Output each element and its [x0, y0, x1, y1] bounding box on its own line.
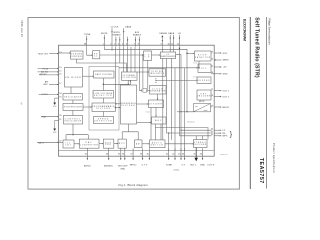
svg-text:20: 20 [59, 115, 61, 117]
wire pin23 drop [130, 47, 132, 72]
wire SENSE pin [162, 37, 163, 46]
wire refdiv bottom [128, 124, 130, 132]
wire buffer pin [211, 73, 215, 75]
svg-text:35: 35 [118, 154, 120, 156]
wire bottom stub x181.0 [180, 148, 182, 160]
svg-text:38: 38 [84, 44, 86, 46]
svg-text:GND: GND [223, 74, 228, 76]
wire sense drops a [161, 47, 163, 52]
svg-text:MUTE: MUTE [199, 101, 205, 103]
wire DATA2 pin [170, 35, 171, 47]
wire pin23 long drop [139, 47, 141, 90]
wire sense drops c [173, 47, 175, 52]
wire TUNE pin [86, 36, 87, 47]
wire pin19 drop short [111, 47, 113, 51]
svg-text:DETECTOR: DETECTOR [94, 95, 113, 97]
junction mute/stop [186, 53, 187, 54]
svg-text:t0 u1: t0 u1 [193, 62, 197, 65]
svg-text:36: 36 [122, 154, 124, 156]
junction stopdet tie [198, 67, 199, 68]
svg-text:GENERATOR: GENERATOR [150, 89, 166, 92]
svg-text:33: 33 [85, 154, 87, 156]
svg-text:GND: GND [120, 168, 125, 170]
svg-text:DATA: DATA [168, 32, 174, 35]
svg-text:INDICATOR: INDICATOR [150, 72, 165, 75]
svg-text:GND: GND [200, 165, 205, 167]
svg-text:6: 6 [21, 101, 23, 105]
svg-text:OSCILLATOR: OSCILLATOR [64, 95, 82, 98]
svg-text:—: — [27, 9, 29, 11]
block programmable divider [92, 103, 115, 112]
wire right pin MUTE [214, 106, 222, 107]
wire tri pin [211, 106, 212, 108]
wire ifcnt to tuning ind [137, 71, 149, 72]
svg-text:t0 u2: t0 u2 [193, 76, 197, 79]
svg-text:9: 9 [161, 44, 162, 46]
block control oscillator [64, 116, 83, 125]
wire demod bottom drop a [162, 59, 164, 140]
svg-text:6: 6 [126, 44, 127, 46]
ground arrow GND filled [194, 148, 198, 162]
wire right pin OUT 1 [214, 90, 222, 91]
junction progdiv b [115, 107, 116, 108]
svg-text:MPX: MPX [223, 136, 228, 138]
wire BUS ENABLE pin [127, 37, 128, 47]
block synthesizer [63, 104, 83, 111]
svg-text:DIVIDER: DIVIDER [149, 103, 162, 105]
wire mux to tuning control [59, 52, 71, 53]
wire pin21 drop [123, 47, 125, 72]
svg-text:18: 18 [59, 93, 61, 95]
wire pin23 [139, 37, 140, 47]
svg-text:}: } [230, 129, 233, 138]
figure outer frame [28, 18, 239, 190]
wire right pin MPX [214, 135, 222, 136]
wire mute pin route [104, 47, 193, 112]
ground at xtal pin [53, 120, 57, 134]
svg-text:+VCC: +VCC [173, 170, 180, 172]
IC boundary box U1 [59, 45, 215, 156]
wire XTAL [41, 116, 59, 117]
svg-text:SYNTHESIZER: SYNTHESIZER [64, 107, 83, 109]
wire bottom stub x87.3 [87, 148, 89, 160]
wire mixer to fast [83, 76, 94, 77]
svg-text:tunemute: tunemute [187, 120, 195, 123]
wire level gnd tap [55, 97, 59, 99]
wire if cnt to demod [152, 54, 161, 55]
wire ifcnt refdiv a [128, 80, 129, 85]
wire bottom stub x124.8 [124, 148, 126, 160]
svg-text:41: 41 [166, 154, 168, 156]
header rule 2 [249, 17, 251, 189]
svg-text:5 V: 5 V [182, 164, 186, 166]
wire to mpx top [121, 132, 123, 139]
svg-text:Product specification: Product specification [272, 143, 276, 173]
svg-text:34: 34 [106, 154, 108, 156]
svg-text:DETECTOR: DETECTOR [195, 57, 211, 59]
svg-text:BLOCK DIAGRAM: BLOCK DIAGRAM [242, 19, 246, 41]
wire osc synth link [72, 100, 74, 104]
wire pin18 drop long [114, 47, 116, 104]
svg-text:DETECTOR: DETECTOR [94, 121, 113, 123]
svg-text:TEA5757: TEA5757 [258, 158, 264, 184]
wire stopdet pin a [210, 52, 213, 54]
svg-text:OUT L: OUT L [190, 164, 198, 166]
wire refdiv to divider [137, 103, 149, 104]
block fast digital [94, 71, 115, 78]
svg-text:3: 3 [114, 44, 115, 46]
junction mute feed [180, 111, 181, 112]
wire bus v171 [171, 59, 173, 140]
wire right pin LF [214, 130, 222, 131]
ti dot b [154, 79, 157, 82]
wire pin24 drop [134, 47, 136, 72]
svg-text:10: 10 [167, 44, 169, 46]
wire bottom stub x184.6 [184, 148, 186, 160]
block divider [149, 100, 164, 108]
svg-text:45: 45 [193, 154, 195, 156]
block stop detector [195, 51, 212, 61]
svg-text:8: 8 [138, 44, 139, 46]
wire crystal to clockgen [148, 89, 150, 91]
svg-text:17: 17 [59, 83, 61, 85]
block audio switch [150, 140, 166, 148]
block low voltage detector [93, 91, 114, 99]
svg-text:MUTE: MUTE [101, 33, 108, 35]
svg-text:19: 19 [59, 96, 61, 98]
ti dot a [154, 77, 157, 80]
wire fast to lowvolt [102, 78, 104, 91]
block key decoder [197, 90, 211, 100]
wire bottom stub x175.0 [174, 148, 176, 160]
wire io long bus [179, 47, 181, 136]
block i2c counter [63, 140, 74, 148]
wire CLOCK pin [111, 28, 112, 47]
block buffer [197, 77, 211, 84]
svg-text:MUX OUT: MUX OUT [38, 53, 49, 55]
ground at level pin [53, 98, 57, 108]
svg-text:DEMODULATOR: DEMODULATOR [160, 55, 176, 58]
wire RA IN [37, 142, 58, 143]
svg-text:+5V: +5V [223, 67, 228, 69]
svg-text:DECODER: DECODER [197, 96, 211, 98]
svg-text:OUT R: OUT R [207, 164, 215, 166]
wire bottom stub x120.8 [120, 148, 122, 160]
wire tune pin stub [168, 149, 170, 151]
wire crystal drop b [147, 60, 149, 89]
wire bottom stub x133.1 [132, 148, 134, 160]
block fs counter [93, 51, 100, 59]
wire to count top [65, 135, 67, 140]
svg-text:OUT 2: OUT 2 [223, 96, 231, 98]
svg-text:2: 2 [110, 44, 111, 46]
ti dot c [154, 81, 157, 84]
junction mute feed2 [186, 111, 187, 112]
wire fs to if cnt [100, 54, 144, 55]
crystal symbol X1 [142, 89, 148, 93]
svg-text:37: 37 [130, 154, 132, 156]
wire bus v168 [168, 133, 170, 151]
wire pin19 [119, 37, 120, 47]
wire out4 bus [155, 128, 208, 140]
svg-text:I V: I V [145, 56, 151, 58]
svg-text:S/CL: S/CL [223, 53, 229, 55]
sense node marker [161, 35, 163, 37]
block if demodulator [160, 52, 176, 59]
wire lowvolt to progdiv [102, 98, 104, 103]
internal bottom rail wire [59, 150, 214, 152]
svg-text:AM IN2: AM IN2 [39, 73, 46, 76]
svg-text:MUTE: MUTE [223, 107, 230, 109]
wire bus v175 [174, 68, 176, 151]
wire stopdet bottom tie [198, 61, 200, 68]
svg-text:DECOUP: DECOUP [118, 165, 128, 167]
svg-text:PLL: PLL [201, 68, 208, 70]
wire key pin a [210, 90, 213, 92]
wire ifcnt refdiv b [130, 80, 131, 85]
wire mute branch to stop det [187, 53, 195, 54]
svg-text:FM MIXER: FM MIXER [65, 77, 81, 79]
wire FM IN [38, 68, 59, 69]
block reference divider [121, 85, 137, 124]
mute crossfade box [194, 104, 211, 112]
wire right pin SERD [214, 59, 221, 60]
wire synth to progdiv [83, 106, 92, 107]
svg-text:MPX: MPX [119, 143, 126, 145]
svg-text:40: 40 [147, 154, 149, 156]
svg-text:SENSE: SENSE [159, 33, 167, 35]
svg-text:FER: FER [105, 144, 112, 146]
wire MUX OUT [49, 53, 58, 54]
wire to am top [137, 132, 139, 140]
wire bottom distribution [66, 134, 88, 136]
svg-text:CONVERTER: CONVERTER [80, 144, 99, 146]
wire demod right drop [176, 55, 212, 131]
header rule 1 [266, 17, 268, 189]
junction ctrl osc [72, 134, 73, 135]
wire demod drop ext [180, 130, 182, 151]
wire ti to buffer [156, 80, 197, 82]
svg-text:mute: mute [204, 109, 208, 112]
wire right pin GND [214, 73, 222, 74]
block pll [198, 64, 211, 73]
wire bottom stub x108.7 [108, 148, 110, 160]
wire buf to mpx [114, 143, 118, 144]
wire dac to buf [99, 143, 103, 144]
svg-text:ENABLE: ENABLE [113, 33, 122, 36]
wire out3 bus [180, 135, 212, 137]
block mpx [118, 139, 126, 148]
wire refdiv to progdiv b [115, 107, 120, 108]
wire WRITE ENABLE pin [115, 37, 116, 47]
svg-text:0.7 V: 0.7 V [142, 164, 148, 166]
svg-text:5: 5 [122, 44, 123, 46]
wire refdiv to progdiv a [115, 103, 120, 104]
wire AM IN1 [38, 71, 59, 72]
svg-text:AGND: AGND [84, 164, 91, 167]
wire tune pin drop to fs [87, 47, 93, 56]
svg-text:44: 44 [182, 154, 184, 156]
wire sense drops b [169, 47, 171, 52]
junction v181 [180, 130, 181, 131]
wire clockgen to divider [157, 94, 158, 100]
wire fast branch to refdiv [103, 83, 129, 86]
svg-text:43: 43 [178, 154, 180, 156]
block am [135, 140, 143, 148]
wire synth ctrlosc link [72, 111, 74, 116]
wire right pin +5V [214, 66, 222, 67]
wire I/O pin [179, 35, 180, 47]
block if counter small [144, 51, 152, 60]
svg-text:Self Tuned Radio (STR): Self Tuned Radio (STR) [254, 17, 260, 78]
svg-text:CL: CL [94, 56, 99, 58]
svg-text:16: 16 [59, 73, 61, 75]
wire y67.8 bus to pll [119, 67, 198, 68]
wire ctrlosc down [72, 124, 74, 135]
wire DATA pin [123, 28, 124, 47]
wire ra in to count [59, 141, 64, 143]
svg-text:7: 7 [134, 44, 135, 46]
block tuning control [71, 51, 84, 59]
wire tuning control down bus [77, 59, 127, 72]
junction v168 [168, 132, 169, 133]
wire bus v184 [184, 68, 186, 151]
svg-text:4: 4 [118, 44, 119, 46]
wire LEVEL [39, 94, 59, 95]
svg-text:14: 14 [59, 67, 61, 69]
svg-text:BUFFER: BUFFER [197, 80, 211, 82]
svg-text:I/O: I/O [178, 33, 181, 35]
wire xtal gnd tap [55, 119, 59, 121]
wire crystal drop a [142, 55, 144, 89]
block clock generator [150, 86, 167, 95]
wire count to dac [74, 143, 79, 144]
svg-text:TUNE: TUNE [166, 165, 173, 167]
wire mute feed [177, 111, 187, 113]
wire bus v149 [150, 108, 152, 140]
wire demod bottom drop b [167, 59, 212, 134]
svg-text:42: 42 [172, 154, 174, 156]
wire right pin S/CL [214, 52, 222, 53]
svg-text:AGC: AGC [155, 119, 162, 122]
wire key pin b [210, 96, 213, 98]
svg-text:DECODER: DECODER [193, 144, 207, 146]
svg-text:DATA: DATA [125, 26, 131, 29]
wire pll pin [210, 66, 213, 68]
svg-text:DIVIDER: DIVIDER [96, 108, 111, 110]
svg-text:1: 1 [103, 44, 104, 46]
svg-text:OUT 1: OUT 1 [223, 90, 231, 92]
wire mixer osc link [70, 87, 72, 94]
block buffer2 [103, 139, 113, 148]
wire divider to agc [155, 108, 156, 118]
junction fast branch [103, 84, 104, 85]
wire bottom stub x202.5 [202, 148, 204, 160]
block tuning indicator [149, 69, 166, 76]
svg-text:Philips Semiconductors: Philips Semiconductors [268, 18, 272, 45]
svg-text:ENABLE: ENABLE [133, 33, 142, 36]
wire MUTE pin [104, 35, 105, 47]
block speed detector [94, 117, 114, 124]
svg-text:11: 11 [171, 44, 173, 46]
svg-text:FAST DIGITAL: FAST DIGITAL [95, 73, 112, 76]
svg-text:mpx out: mpx out [220, 153, 228, 156]
io arrow into ic [179, 48, 181, 50]
block dac converter [79, 139, 99, 148]
wire agc to switch a [154, 124, 156, 140]
wire pin22 [135, 37, 136, 47]
svg-text:COUNTER: COUNTER [122, 77, 137, 79]
svg-text:OSCILLATOR: OSCILLATOR [64, 119, 81, 122]
wire progdiv to speed [102, 112, 104, 117]
svg-text:AM: AM [136, 142, 141, 145]
wire pin22 drop [127, 47, 129, 72]
svg-text:MPXO: MPXO [130, 164, 137, 166]
junction crystal tap [142, 54, 143, 55]
wire stereo top tie a [195, 136, 197, 140]
block oscillator [63, 94, 83, 101]
wire bottom stub x149.3 [149, 148, 151, 160]
wire to dac top [87, 135, 89, 139]
svg-text:t tune 1: t tune 1 [145, 110, 152, 113]
wire AM IN2 [39, 74, 59, 75]
wire refdiv bottom split [122, 131, 138, 133]
svg-text:21: 21 [59, 119, 61, 121]
svg-text:DIVIDER: DIVIDER [121, 105, 135, 107]
wire pin20 drop [119, 47, 121, 63]
svg-text:15: 15 [59, 70, 61, 72]
wire am to switch [142, 143, 150, 144]
wire switch to stereo [165, 143, 194, 144]
block if signal counter [122, 72, 138, 80]
wire right pin RF [214, 132, 222, 133]
block agc [152, 117, 167, 124]
svg-text:39: 39 [140, 154, 142, 156]
block fm mixer [65, 68, 83, 88]
svg-text:Fig.1 Block diagram.: Fig.1 Block diagram. [119, 183, 149, 187]
svg-text:46: 46 [200, 154, 202, 156]
wire pin26 [173, 35, 174, 47]
block stereo decoder [193, 140, 207, 148]
svg-text:12: 12 [177, 44, 179, 46]
wire bottom stub x168.7 [168, 148, 170, 160]
svg-text:XTAL: XTAL [41, 116, 46, 119]
wire right pin OUT 2 [214, 96, 222, 97]
svg-text:SWITCH: SWITCH [151, 144, 164, 146]
svg-text:CNT: CNT [65, 145, 72, 147]
svg-text:CONTROL: CONTROL [71, 56, 84, 58]
wire AGC [49, 84, 59, 85]
svg-text:AM AGC: AM AGC [104, 164, 113, 167]
wire agc to switch b [160, 124, 162, 140]
wire stereo top tie b [202, 136, 204, 140]
wire bottom stub x142.6 [142, 148, 144, 160]
svg-text:AGC: AGC [44, 83, 49, 86]
synthesizer group box [89, 67, 119, 131]
svg-text:SERD: SERD [223, 60, 230, 62]
svg-text:1996 Jun 20: 1996 Jun 20 [20, 20, 23, 37]
wire refdiv to agc [137, 122, 152, 123]
svg-text:TUNE: TUNE [84, 34, 91, 36]
